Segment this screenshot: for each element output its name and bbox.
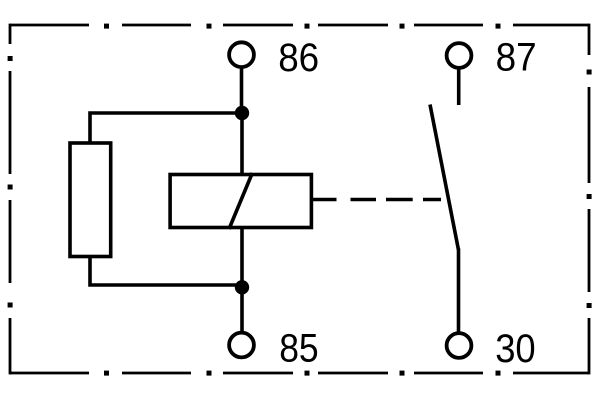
wire stub below terminal 87: [457, 69, 461, 105]
relay enclosure outline, bottom side dots: [104, 371, 501, 376]
coil K1 (relay coil box): [170, 175, 311, 228]
resistor R1 (parallel resistor body): [70, 143, 111, 257]
relay enclosure outline, top side dots: [104, 24, 501, 29]
node A (junction dot, top): [235, 106, 249, 120]
coil K1 diagonal stroke: [229, 173, 252, 229]
relay enclosure outline, left side: [9, 24, 12, 375]
coil right stub (solid): [313, 198, 337, 202]
relay enclosure outline, right side: [588, 24, 591, 375]
relay enclosure outline, right side dots: [587, 70, 592, 309]
svg-text:30: 30: [495, 326, 536, 371]
switch blade (movable contact): [430, 105, 459, 251]
wire from coil bottom down to node B: [240, 228, 244, 287]
svg-text:85: 85: [279, 326, 319, 371]
relay enclosure outline (dash-dot box), top side: [10, 24, 589, 27]
wire from resistor bottom down and right to node B: [90, 257, 242, 286]
terminal 87 (circle): [447, 43, 472, 68]
relay enclosure outline, bottom side: [10, 372, 589, 375]
wire from node A down to coil top: [240, 113, 244, 174]
svg-text:87: 87: [496, 35, 537, 80]
wire from node A left and down to resistor top: [90, 113, 242, 143]
terminal 85 (circle): [229, 333, 254, 358]
relay enclosure outline, left side dots: [8, 56, 13, 308]
wire from blade elbow down to terminal 30: [457, 249, 461, 335]
terminal 30 (circle): [447, 333, 472, 358]
wire from terminal 86 down to node A: [240, 69, 244, 114]
svg-text:86: 86: [278, 35, 319, 80]
terminal 86 (circle): [229, 42, 254, 67]
actuation link (dashed line to switch): [351, 198, 442, 202]
node B (junction dot, bottom): [235, 280, 249, 294]
wire from node B down to terminal 85: [240, 287, 244, 333]
